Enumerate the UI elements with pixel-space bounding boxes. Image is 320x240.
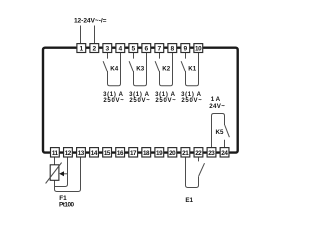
svg-text:1: 1 — [79, 45, 83, 52]
svg-text:24: 24 — [221, 150, 228, 157]
svg-text:2: 2 — [92, 45, 96, 52]
svg-text:12-24V~-/=: 12-24V~-/= — [74, 17, 107, 24]
svg-text:15: 15 — [104, 150, 111, 157]
svg-text:23: 23 — [208, 150, 215, 157]
svg-text:K5: K5 — [216, 129, 224, 136]
svg-text:22: 22 — [195, 150, 202, 157]
svg-text:250V~: 250V~ — [129, 98, 150, 104]
svg-text:16: 16 — [117, 150, 124, 157]
svg-text:250V~: 250V~ — [181, 98, 202, 104]
svg-text:250V~: 250V~ — [103, 98, 124, 104]
svg-text:9: 9 — [183, 45, 187, 52]
svg-text:250V~: 250V~ — [155, 98, 176, 104]
svg-text:24V~: 24V~ — [209, 103, 225, 110]
svg-text:13: 13 — [78, 150, 85, 157]
svg-text:1 A: 1 A — [211, 96, 221, 103]
svg-text:E1: E1 — [185, 197, 193, 204]
svg-text:21: 21 — [182, 150, 189, 157]
svg-text:K3: K3 — [136, 66, 144, 73]
svg-text:4: 4 — [118, 45, 122, 52]
svg-text:11: 11 — [52, 150, 59, 157]
svg-text:Pt100: Pt100 — [59, 202, 74, 209]
svg-text:6: 6 — [144, 45, 148, 52]
svg-text:18: 18 — [143, 150, 150, 157]
svg-text:20: 20 — [169, 150, 176, 157]
svg-text:K2: K2 — [162, 66, 170, 73]
svg-text:5: 5 — [131, 45, 135, 52]
svg-text:K1: K1 — [188, 66, 196, 73]
svg-text:12: 12 — [65, 150, 72, 157]
svg-text:14: 14 — [91, 150, 98, 157]
svg-text:10: 10 — [195, 45, 202, 52]
svg-text:K4: K4 — [110, 66, 118, 73]
svg-text:3: 3 — [105, 45, 109, 52]
svg-text:8: 8 — [170, 45, 174, 52]
svg-text:7: 7 — [157, 45, 161, 52]
svg-text:19: 19 — [156, 150, 163, 157]
svg-text:17: 17 — [130, 150, 137, 157]
